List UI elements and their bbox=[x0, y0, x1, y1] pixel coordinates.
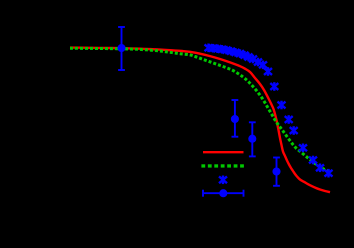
legend: green dashed line sample bbox=[201, 164, 244, 167]
green dashed theory curve bbox=[70, 48, 332, 172]
legend: circle with horizontal error bar sample bbox=[203, 190, 244, 197]
legend: red solid line sample bbox=[203, 151, 244, 153]
data point 4 (circle with error bar) bbox=[273, 158, 280, 186]
data point 3 (circle with error bar) bbox=[249, 122, 256, 156]
data point 2 (circle with error bar) bbox=[232, 100, 239, 137]
data point 1 (circle with error bar) bbox=[118, 27, 125, 70]
legend: star marker sample bbox=[219, 176, 227, 185]
red solid theory curve bbox=[70, 48, 330, 193]
star data markers bbox=[205, 44, 333, 178]
